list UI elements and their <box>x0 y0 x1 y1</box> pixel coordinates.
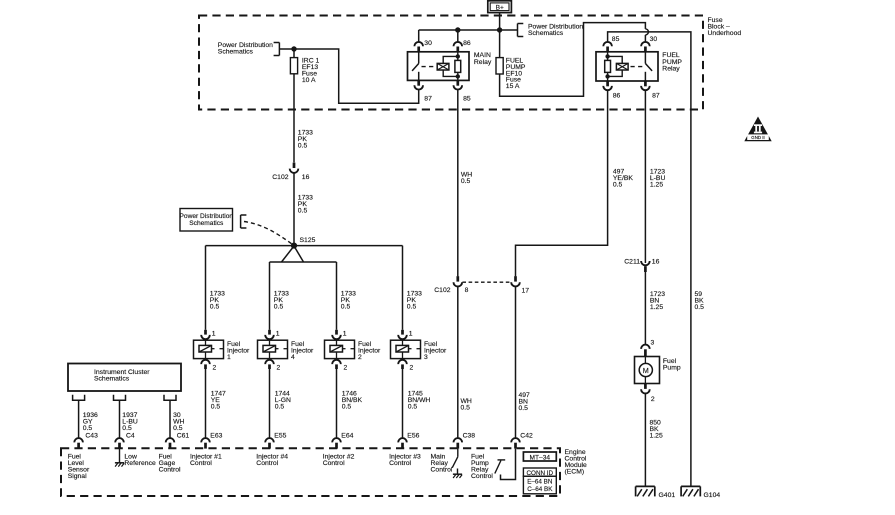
svg-text:Control: Control <box>159 467 181 474</box>
label Injector #3 Control <box>389 454 421 468</box>
svg-text:S125: S125 <box>300 237 316 244</box>
connector C211 pin 16 <box>624 259 659 272</box>
ECM enclosure (dashed) <box>61 448 560 496</box>
svg-text:30: 30 <box>650 36 658 43</box>
label wire 1936 GY 0.5 <box>83 412 98 432</box>
svg-text:C61: C61 <box>177 433 190 440</box>
bracket instrument cluster output 3 <box>164 395 176 401</box>
svg-text:2: 2 <box>213 365 217 372</box>
wire EF10 fuse to fuel pump relay pin 30 <box>500 23 649 97</box>
splice S125 <box>291 237 316 249</box>
label wire 1733 PK 0.5 (injector 4) <box>274 291 289 311</box>
svg-text:C102: C102 <box>434 287 450 294</box>
label Fuel Level Sensor Signal <box>68 454 90 481</box>
svg-text:1.25: 1.25 <box>650 433 663 440</box>
main relay mechanical link (dashed) <box>422 66 436 68</box>
label Fuel Injector 2 <box>358 341 381 361</box>
fuel pump relay control driver <box>495 449 516 480</box>
svg-text:Control: Control <box>256 460 278 467</box>
wire WH main relay 85 to C102 pin 8 <box>457 90 459 276</box>
label wire 1937 L-BU 0.5 <box>122 412 138 432</box>
label wire 1744 L-GN 0.5 <box>275 391 291 411</box>
svg-text:1.25: 1.25 <box>650 182 663 189</box>
svg-text:10 A: 10 A <box>302 77 316 84</box>
label Fuel Gage Control <box>159 454 181 474</box>
svg-text:Schematics: Schematics <box>94 375 130 382</box>
svg-text:2: 2 <box>358 354 362 361</box>
ECM pin C42 <box>511 433 533 449</box>
svg-text:0.5: 0.5 <box>275 404 285 411</box>
label wire 1745 BN/WH 0.5 <box>408 391 431 411</box>
svg-text:M: M <box>643 366 649 375</box>
svg-text:0.5: 0.5 <box>274 304 284 311</box>
ECM pin E63 <box>201 433 222 449</box>
svg-text:Power Distribution: Power Distribution <box>180 213 234 220</box>
svg-text:0.5: 0.5 <box>695 304 705 311</box>
label wire 59 BK 0.5 <box>695 291 705 311</box>
svg-text:0.5: 0.5 <box>298 142 308 149</box>
svg-text:Relay: Relay <box>474 59 492 66</box>
label Engine Control Module (ECM) <box>565 449 588 476</box>
svg-text:0.5: 0.5 <box>173 425 183 432</box>
svg-text:0.5: 0.5 <box>210 304 220 311</box>
label wire 30 WH 0.5 <box>173 412 184 432</box>
svg-text:0.5: 0.5 <box>122 425 132 432</box>
label wire 1723 L-BU 1.25 <box>650 169 666 189</box>
label Main Relay Control <box>431 454 453 474</box>
wire WH to ECM C38 <box>457 287 459 439</box>
label Injector #1 Control <box>190 454 222 468</box>
label wire 1733 PK 0.5 (injector 1) <box>210 291 225 311</box>
label Fuel Pump Relay Control <box>471 454 493 481</box>
fuel injector 4 pin 2 <box>265 360 280 372</box>
fuel pump pin 2 <box>641 384 655 404</box>
svg-text:0.5: 0.5 <box>519 405 529 412</box>
junction B+ rail / coil riser <box>455 27 460 32</box>
label wire WH 0.5 (lower) <box>461 398 472 412</box>
main relay pin 30 <box>414 30 432 52</box>
dashed pointer to splice S125 <box>244 222 293 245</box>
svg-text:3: 3 <box>651 340 655 347</box>
svg-text:3: 3 <box>424 354 428 361</box>
svg-text:C–64 BK: C–64 BK <box>527 486 553 493</box>
fuel injector 3 pin 1 <box>398 330 413 339</box>
bracket power distribution schematics (top left) <box>218 42 294 56</box>
reference box power distribution schematics <box>180 209 247 232</box>
bracket instrument cluster output 2 <box>114 395 126 401</box>
label fuse IRC 1 EF13 <box>302 58 320 85</box>
fuel pump relay pin 30 <box>641 36 657 52</box>
reference box instrument cluster schematics <box>68 364 181 392</box>
fuse IRC 1 EF13 10A <box>290 49 297 74</box>
ECM pin C43 <box>74 433 98 449</box>
svg-text:Reference: Reference <box>124 460 156 467</box>
wire injector 1 to ECM E63 <box>205 369 207 438</box>
wire injector 2 to ECM E64 <box>336 369 338 438</box>
wire 1733 PK splice to injector 1 <box>205 246 207 330</box>
fuel pump relay pin 86 <box>603 81 620 100</box>
label wire 1747 YE 0.5 <box>211 391 226 411</box>
svg-text:C43: C43 <box>85 433 98 440</box>
label wire 1746 BN/BK 0.5 <box>342 391 363 411</box>
svg-text:(ECM): (ECM) <box>565 469 585 476</box>
label wire 1733 PK 0.5 (injector 3) <box>407 291 422 311</box>
svg-text:E55: E55 <box>274 433 286 440</box>
wire fuel pump relay pin 85 to ground G104 (59 BK) <box>608 32 691 487</box>
svg-text:1: 1 <box>227 354 231 361</box>
svg-text:0.5: 0.5 <box>407 304 417 311</box>
label Fuel Pump <box>663 358 681 372</box>
svg-text:G104: G104 <box>704 492 721 499</box>
wire B+ vertical feed <box>499 13 501 58</box>
svg-text:Control: Control <box>471 473 493 480</box>
wire 1723 L-BU fuel pump relay 87 to C211 <box>644 90 646 263</box>
fuel injector 4 pin 1 <box>265 330 280 339</box>
wire 1723 BN C211 to fuel pump <box>644 272 646 345</box>
svg-text:87: 87 <box>652 93 660 100</box>
label FUEL PUMP Relay <box>662 52 682 72</box>
wire 30 WH to ECM C61 <box>169 400 171 438</box>
svg-text:Control: Control <box>431 467 453 474</box>
svg-text:Underhood: Underhood <box>708 30 742 37</box>
svg-text:E56: E56 <box>407 433 419 440</box>
wire B+ rail to main relay pins 30/86 <box>419 29 518 31</box>
bracket instrument cluster output 1 <box>73 395 85 401</box>
svg-text:1: 1 <box>276 330 280 337</box>
wire injector 3 to ECM E56 <box>402 369 404 438</box>
svg-text:Schematics: Schematics <box>528 30 564 37</box>
relay FUEL PUMP relay <box>596 52 658 81</box>
relay MAIN relay <box>408 52 470 81</box>
label wire 1723 BN 1.25 <box>650 291 665 311</box>
wire 1733 PK splice to injector 4 <box>269 262 271 330</box>
main relay switch <box>412 52 419 81</box>
fuel injector 2 pin 1 <box>332 330 347 339</box>
ECM pin C4 <box>115 433 135 449</box>
wire 1937 L-BU to ECM C4 <box>119 400 121 438</box>
svg-text:2: 2 <box>344 365 348 372</box>
fuel injector 2 pin 2 <box>332 360 347 372</box>
svg-text:C4: C4 <box>126 433 135 440</box>
fuel pump relay mechanical link (dashed) <box>631 66 644 68</box>
svg-text:B+: B+ <box>496 5 504 12</box>
main relay coil with resistor <box>437 52 460 81</box>
svg-text:2: 2 <box>651 396 655 403</box>
fuel injector 3 pin 2 <box>398 360 413 372</box>
wire node to main relay pin 87 <box>294 49 419 103</box>
svg-text:1: 1 <box>343 330 347 337</box>
ECM pin E64 <box>332 433 353 449</box>
fuel pump relay coil with resistor <box>605 52 628 81</box>
ECM pin C61 <box>166 433 190 449</box>
label Fuel Injector 3 <box>424 341 447 361</box>
fuel injector 1 (solenoid) <box>194 340 224 358</box>
ground G401 <box>636 486 676 499</box>
wire injector 4 to ECM E55 <box>269 369 271 438</box>
svg-text:Relay: Relay <box>662 65 680 72</box>
svg-text:C102: C102 <box>272 174 288 181</box>
svg-text:16: 16 <box>302 174 310 181</box>
fuel injector 4 (solenoid) <box>258 340 288 358</box>
svg-text:0.5: 0.5 <box>461 405 471 412</box>
fuse FUEL PUMP EF10 15A <box>496 58 503 74</box>
svg-text:0.5: 0.5 <box>461 178 471 185</box>
main relay pin 85 <box>454 80 471 102</box>
fuel pump pin 3 <box>641 340 654 357</box>
fuel injector 1 pin 1 <box>201 330 216 339</box>
svg-text:G401: G401 <box>659 492 676 499</box>
wire splice rail outer (injectors 1 and 3) <box>206 245 403 247</box>
svg-text:1: 1 <box>409 330 413 337</box>
svg-text:16: 16 <box>652 259 660 266</box>
svg-text:Pump: Pump <box>663 365 681 372</box>
label Low Reference <box>124 454 156 468</box>
wire splice diagonals to inner rail <box>270 246 337 262</box>
svg-text:E–64 BN: E–64 BN <box>527 479 553 486</box>
svg-text:0.5: 0.5 <box>211 404 221 411</box>
connector C102 pin 8 <box>434 276 468 294</box>
svg-text:30: 30 <box>424 40 432 47</box>
wire 497 YE/BK fuel pump relay 86 to C102 pin 17 <box>516 90 608 276</box>
svg-text:4: 4 <box>291 354 295 361</box>
label Injector #4 Control <box>256 454 288 468</box>
svg-text:E64: E64 <box>341 433 353 440</box>
junction fuse IRC1 top node <box>291 46 296 51</box>
warning symbol GND triangle <box>744 117 771 142</box>
fuel injector 3 (solenoid) <box>391 340 421 358</box>
wire 1733 PK C102 to S125 <box>293 173 295 246</box>
label fuse FUEL PUMP EF10 <box>506 58 526 91</box>
connector C102 dashed pair line <box>462 281 511 283</box>
svg-text:C42: C42 <box>520 433 533 440</box>
fuel pump relay pin 85 <box>603 36 619 52</box>
fuel injector 1 pin 2 <box>201 360 216 372</box>
wire 850 BK fuel pump to G401 <box>644 393 646 486</box>
label wire 497 BN 0.5 <box>519 392 531 412</box>
svg-text:15 A: 15 A <box>506 83 520 90</box>
node B+ <box>488 1 512 13</box>
svg-text:87: 87 <box>424 96 432 103</box>
svg-text:GND II: GND II <box>751 135 764 140</box>
label wire 850 BK 1.25 <box>650 420 663 440</box>
junction B+ rail / B+ feed <box>497 27 502 32</box>
svg-text:MT–34: MT–34 <box>530 454 551 461</box>
svg-text:Schematics: Schematics <box>218 48 254 55</box>
label wire 1733 PK 0.5 (injector 2) <box>341 291 356 311</box>
label Fuse Block - Underhood <box>708 17 742 37</box>
svg-text:1: 1 <box>212 330 216 337</box>
main relay pin 86 <box>454 30 471 52</box>
ground G104 <box>681 486 720 499</box>
fuel injector 2 (solenoid) <box>325 340 355 358</box>
ground low reference (internal) <box>115 449 124 467</box>
svg-text:0.5: 0.5 <box>341 304 351 311</box>
fuel pump relay switch <box>645 52 652 81</box>
connector C102 pin 17 <box>511 276 529 294</box>
svg-text:0.5: 0.5 <box>613 182 623 189</box>
main relay pin 87 <box>414 80 432 102</box>
wire 1733 PK splice to injector 3 <box>402 246 404 330</box>
wire 497 BN C102 to ECM C42 <box>515 287 517 439</box>
motor fuel pump <box>635 357 660 384</box>
svg-text:Control: Control <box>323 460 345 467</box>
label Fuel Injector 1 <box>227 341 250 361</box>
label wire 1733 PK 0.5 (below C102) <box>298 195 313 215</box>
fuse block underhood enclosure (dashed) <box>199 16 703 110</box>
svg-text:86: 86 <box>463 40 471 47</box>
fuel pump relay pin 87 <box>641 81 660 100</box>
connector ID box CONN ID / E-64 BN / C-64 BK <box>523 468 556 494</box>
svg-text:8: 8 <box>465 287 469 294</box>
wire 1733 PK fuse to C102 <box>293 74 295 163</box>
connector ID box MT-34 <box>523 452 556 461</box>
label wire 497 YE/BK 0.5 <box>613 169 633 189</box>
main relay control driver switch and ground <box>452 449 462 478</box>
svg-text:0.5: 0.5 <box>342 404 352 411</box>
label wire WH 0.5 (upper) <box>461 172 472 186</box>
svg-text:17: 17 <box>522 287 530 294</box>
label Fuel Injector 4 <box>291 341 314 361</box>
svg-text:0.5: 0.5 <box>298 208 308 215</box>
ECM pin E55 <box>265 433 286 449</box>
svg-text:C211: C211 <box>624 259 640 266</box>
ECM pin C38 <box>454 433 476 449</box>
svg-text:Control: Control <box>389 460 411 467</box>
svg-text:2: 2 <box>410 365 414 372</box>
svg-text:E63: E63 <box>210 433 222 440</box>
svg-text:1.25: 1.25 <box>650 304 663 311</box>
label wire 1733 PK 0.5 (upper) <box>298 129 313 149</box>
svg-text:85: 85 <box>463 96 471 103</box>
svg-text:Control: Control <box>190 460 212 467</box>
label MAIN Relay <box>474 52 492 66</box>
label Injector #2 Control <box>323 454 355 468</box>
ECM pin E56 <box>398 433 419 449</box>
svg-text:2: 2 <box>277 365 281 372</box>
connector C102 pin 16 <box>272 163 309 182</box>
svg-text:0.5: 0.5 <box>408 404 418 411</box>
svg-text:Schematics: Schematics <box>189 220 224 227</box>
bracket power distribution schematics (top middle) <box>518 24 584 38</box>
svg-text:Signal: Signal <box>68 473 87 480</box>
svg-text:0.5: 0.5 <box>83 425 93 432</box>
wire 1936 GY to ECM C43 <box>78 400 80 438</box>
svg-text:85: 85 <box>612 36 620 43</box>
svg-text:86: 86 <box>613 93 621 100</box>
svg-text:C38: C38 <box>463 433 476 440</box>
wire 1733 PK splice to injector 2 <box>336 262 338 330</box>
